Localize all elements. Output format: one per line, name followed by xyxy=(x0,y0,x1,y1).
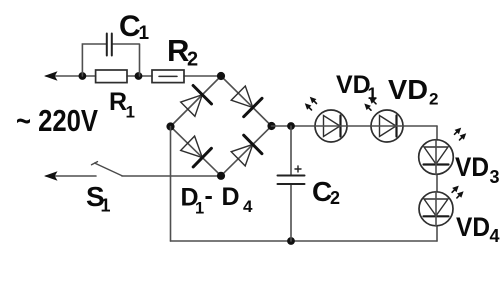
svg-text:~ 220V: ~ 220V xyxy=(16,103,98,138)
diode D1 (left node to top node) xyxy=(181,86,212,117)
svg-text:VD: VD xyxy=(456,212,490,242)
wire: left vertical (bridge left node down to bottom rail) xyxy=(170,127,172,242)
svg-text:R: R xyxy=(109,88,127,116)
wire: right vertical (through VD3, VD4) xyxy=(436,126,438,241)
label R1 xyxy=(109,88,135,122)
label VD2 xyxy=(388,74,438,109)
label ~220V xyxy=(16,103,98,138)
svg-text:1: 1 xyxy=(195,200,204,218)
label VD3 xyxy=(455,152,500,187)
svg-text:2: 2 xyxy=(187,49,198,71)
node: bridge bottom xyxy=(217,172,225,180)
svg-text:VD: VD xyxy=(388,74,428,105)
diode D4 (bottom node to right node) xyxy=(231,135,262,166)
svg-text:2: 2 xyxy=(330,188,340,208)
wire: top line from arrow to bridge top node xyxy=(46,75,221,77)
node: bridge left xyxy=(166,122,174,130)
node: bridge top xyxy=(217,72,225,80)
node: C2 bottom junction xyxy=(287,237,295,245)
LED VD2 light arrows xyxy=(364,97,376,110)
LED VD1 light arrows xyxy=(305,97,317,110)
LED VD1 xyxy=(315,110,347,142)
switch S1 lever xyxy=(92,162,123,176)
LED VD2 xyxy=(371,110,403,142)
label D1 - D4 xyxy=(181,182,254,218)
diode D3 (left node to bottom node) xyxy=(181,136,212,167)
svg-text:-: - xyxy=(205,182,213,210)
svg-text:1: 1 xyxy=(139,23,150,44)
svg-text:1: 1 xyxy=(101,196,111,216)
LED VD4 xyxy=(419,192,453,227)
label C1 xyxy=(119,10,150,44)
svg-text:4: 4 xyxy=(243,197,253,216)
bridge arm wires (diamond) xyxy=(171,76,272,176)
label VD4 xyxy=(456,212,500,246)
terminal arrow (mains, top) xyxy=(44,71,58,81)
label R2 xyxy=(167,33,198,71)
node: bridge right xyxy=(267,122,275,130)
capacitor C1 (parallel loop over R1) xyxy=(82,34,139,77)
capacitor C2 (polarized) xyxy=(278,126,305,241)
svg-text:4: 4 xyxy=(490,226,500,246)
wire: top rail (bridge right node to LEDs) xyxy=(272,125,438,127)
svg-text:1: 1 xyxy=(126,103,135,122)
svg-text:2: 2 xyxy=(429,90,438,109)
wire: switch line (bottom mains lead) xyxy=(46,175,221,177)
terminal arrow (mains, bottom) xyxy=(44,171,58,181)
label C2 xyxy=(312,176,340,208)
node: C2 top junction xyxy=(287,122,295,130)
svg-text:3: 3 xyxy=(490,167,500,187)
resistor R2 xyxy=(152,70,184,83)
label S1 xyxy=(86,181,111,216)
node A (junction dot left of R1) xyxy=(79,72,87,80)
svg-text:VD: VD xyxy=(336,71,371,99)
LED VD3 xyxy=(419,140,454,175)
wire: bottom rail xyxy=(171,240,438,242)
svg-text:C: C xyxy=(119,10,141,43)
node B (junction dot right of R1) xyxy=(135,72,143,80)
LED VD3 light arrows xyxy=(455,128,467,140)
label VD1 xyxy=(336,71,377,103)
LED VD4 light arrows xyxy=(452,186,464,198)
resistor R1 xyxy=(96,70,127,83)
svg-text:VD: VD xyxy=(455,152,489,182)
svg-text:D: D xyxy=(222,183,240,211)
diode D2 (top node to right node) xyxy=(231,86,262,117)
